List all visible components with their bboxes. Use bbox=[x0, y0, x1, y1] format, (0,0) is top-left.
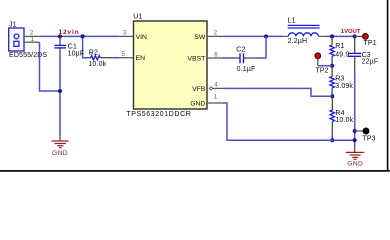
node SW/C2 junction bbox=[264, 34, 268, 38]
resistor R4 bbox=[330, 96, 354, 140]
svg-text:ED555/2DS: ED555/2DS bbox=[9, 52, 47, 59]
pin 5 EN bbox=[120, 57, 134, 59]
node R1/R3/TP2 junction bbox=[330, 64, 334, 68]
wire: C3 bottom to ground rail bbox=[354, 72, 356, 146]
capacitor C1 bbox=[54, 36, 84, 57]
svg-text:49.9: 49.9 bbox=[335, 51, 349, 58]
svg-text:GND: GND bbox=[190, 100, 205, 107]
ground symbol left bbox=[52, 136, 69, 157]
resistor R3 bbox=[330, 66, 354, 97]
wire: C2 riser bbox=[253, 36, 266, 58]
svg-text:R3: R3 bbox=[335, 76, 344, 83]
svg-text:GND: GND bbox=[52, 150, 68, 157]
wire: C1 bottom to gnd node bbox=[59, 56, 61, 136]
svg-text:TPS563201DDCR: TPS563201DDCR bbox=[126, 111, 191, 118]
wire: VFB feedback bbox=[225, 88, 333, 96]
node R1 top junction bbox=[330, 34, 334, 38]
svg-text:C1: C1 bbox=[68, 43, 77, 50]
svg-text:L1: L1 bbox=[288, 17, 296, 24]
op-amp U1 regulator TPS563201DDCR bbox=[120, 13, 225, 118]
pin 6 VBST bbox=[207, 57, 222, 59]
node gnd junction bbox=[58, 89, 62, 93]
wire: L1 to output node bbox=[326, 35, 355, 37]
pin 4 VFB bbox=[209, 87, 212, 90]
capacitor C2 bbox=[230, 47, 255, 73]
svg-text:10.0k: 10.0k bbox=[88, 61, 106, 68]
svg-text:R2: R2 bbox=[89, 49, 98, 56]
svg-text:2.2µH: 2.2µH bbox=[288, 38, 308, 45]
test point TP1 bbox=[355, 33, 377, 47]
svg-text:0.1µF: 0.1µF bbox=[237, 66, 256, 73]
node R3/R4/VFB junction bbox=[330, 94, 334, 98]
ground symbol right bbox=[346, 146, 365, 168]
wire: U1 GND pin to ground rail bbox=[222, 103, 354, 140]
connector J1 bbox=[9, 21, 48, 58]
wire: EN branch vertical bbox=[83, 36, 87, 57]
svg-text:1VOUT: 1VOUT bbox=[341, 29, 361, 35]
node R4 bottom junction bbox=[330, 138, 334, 142]
svg-text:U1: U1 bbox=[133, 13, 142, 20]
svg-text:10.0k: 10.0k bbox=[335, 117, 353, 124]
svg-text:12vin: 12vin bbox=[59, 29, 80, 36]
resistor R1 bbox=[330, 36, 350, 65]
node junction A bbox=[58, 34, 62, 38]
pin 3 VIN bbox=[120, 35, 134, 37]
inductor L1 bbox=[283, 17, 326, 45]
svg-text:TP1: TP1 bbox=[364, 40, 377, 47]
wire: J1 pin1 down to ground run bbox=[40, 42, 61, 91]
node TP3 junction bbox=[353, 129, 357, 133]
wire: R2 to EN pin bbox=[112, 57, 119, 59]
svg-text:C2: C2 bbox=[236, 47, 245, 54]
svg-text:GND: GND bbox=[347, 161, 363, 168]
capacitor C3 bbox=[348, 36, 378, 72]
svg-text:VFB: VFB bbox=[192, 86, 206, 93]
wire: SW to L1 bbox=[222, 35, 283, 37]
node C3 top junction bbox=[353, 34, 357, 38]
pin 1 GND bbox=[207, 102, 222, 104]
svg-text:EN: EN bbox=[136, 55, 146, 62]
test point TP3 bbox=[355, 128, 376, 143]
pin 2 SW bbox=[207, 35, 222, 37]
sheet border bottom bbox=[0, 170, 390, 172]
svg-text:VBST: VBST bbox=[188, 55, 206, 62]
svg-text:10µF: 10µF bbox=[68, 51, 85, 58]
sheet border right bbox=[387, 0, 389, 172]
wire: top input from J1 pin2 to VIN bbox=[39, 35, 120, 37]
wire: VBST to C2 bbox=[222, 57, 230, 59]
svg-text:22µF: 22µF bbox=[362, 59, 379, 66]
test point TP2 bbox=[315, 53, 332, 75]
resistor R2 bbox=[87, 49, 112, 68]
svg-text:3.09k: 3.09k bbox=[335, 83, 353, 90]
svg-text:TP3: TP3 bbox=[362, 136, 375, 143]
svg-text:TP2: TP2 bbox=[315, 68, 328, 75]
svg-text:SW: SW bbox=[194, 34, 206, 41]
node bottom rail junction bbox=[353, 138, 357, 142]
svg-text:R1: R1 bbox=[335, 43, 344, 50]
svg-text:VIN: VIN bbox=[136, 34, 147, 41]
node junction B bbox=[81, 34, 85, 38]
